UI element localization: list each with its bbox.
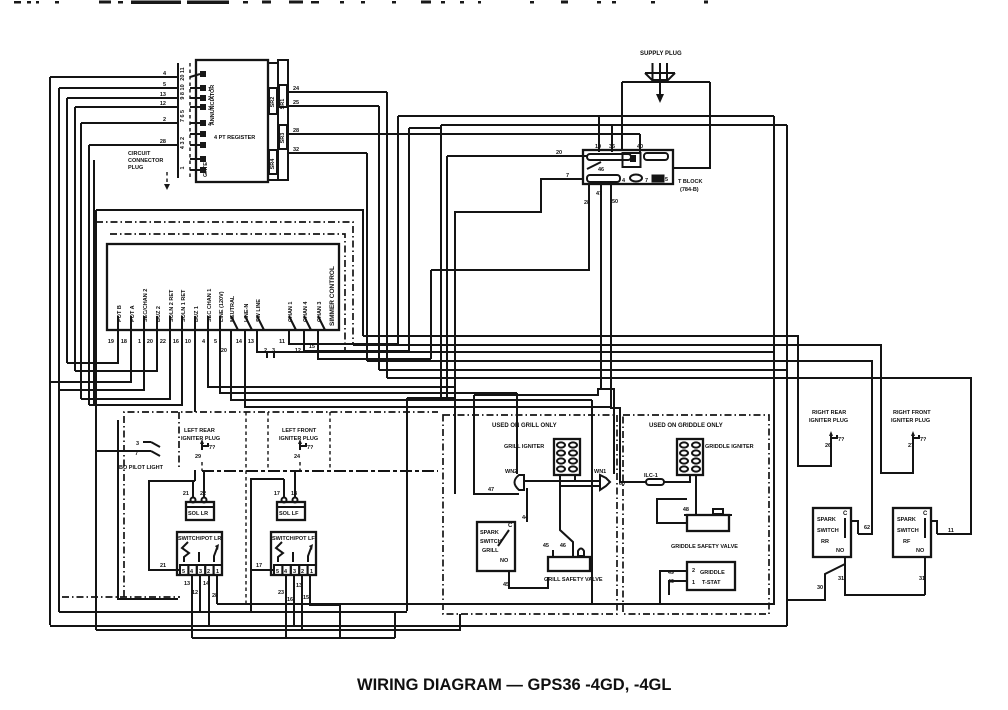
long run to RF plug bbox=[353, 345, 913, 473]
svg-text:ILC-1: ILC-1 bbox=[644, 473, 658, 479]
svg-text:15: 15 bbox=[309, 344, 315, 350]
svg-text:2: 2 bbox=[208, 96, 211, 102]
svg-text:WIRING DIAGRAM — GPS36 -4GD, -: WIRING DIAGRAM — GPS36 -4GD, -4GL bbox=[357, 676, 671, 694]
svg-text:1: 1 bbox=[208, 87, 211, 93]
svg-text:3: 3 bbox=[208, 106, 211, 112]
svg-text:28: 28 bbox=[212, 593, 218, 599]
simmer control module bbox=[107, 244, 339, 330]
right front igniter plug bbox=[891, 410, 931, 450]
svg-text:NO: NO bbox=[500, 558, 509, 564]
right riser B bbox=[773, 116, 775, 604]
simmer pin POT A / 18 bbox=[50, 305, 136, 382]
svg-text:3: 3 bbox=[199, 569, 202, 575]
svg-text:USED ON GRILL ONLY: USED ON GRILL ONLY bbox=[492, 423, 557, 429]
svg-text:C: C bbox=[843, 511, 848, 517]
bottom rail 612 bbox=[59, 611, 407, 613]
svg-text:CONNECTOR: CONNECTOR bbox=[128, 158, 163, 164]
right bottom rail bbox=[217, 603, 775, 605]
wire 31 RF bbox=[919, 557, 925, 595]
svg-text:27: 27 bbox=[908, 443, 914, 449]
wire 20 riser bbox=[446, 156, 448, 398]
spark switch RF bbox=[893, 508, 931, 557]
simmer pin CHAN 3 / 15 bbox=[309, 302, 431, 359]
svg-text:GRIDDLE: GRIDDLE bbox=[700, 570, 725, 576]
wire 50 below TB bbox=[611, 184, 633, 482]
BO pilot light bbox=[119, 437, 164, 471]
svg-text:5: 5 bbox=[163, 82, 166, 88]
svg-text:13: 13 bbox=[160, 92, 166, 98]
wire 25 riser center bbox=[378, 106, 380, 370]
svg-text:1: 1 bbox=[138, 339, 141, 345]
svg-text:28: 28 bbox=[160, 139, 166, 145]
svg-text:7?: 7? bbox=[920, 437, 927, 443]
fuse ILC-1 bbox=[619, 473, 690, 487]
wire 12 left riser bbox=[74, 107, 76, 371]
svg-text:C: C bbox=[923, 511, 928, 517]
wire 32 from U1 bbox=[288, 147, 367, 153]
svg-text:20: 20 bbox=[556, 150, 562, 156]
svg-text:4: 4 bbox=[202, 339, 206, 345]
svg-text:7?: 7? bbox=[307, 445, 314, 451]
griddle t-stat bbox=[668, 562, 735, 590]
svg-text:NO: NO bbox=[836, 548, 845, 554]
simmer pin BUZ 2 / 20 bbox=[75, 306, 162, 371]
svg-text:25: 25 bbox=[293, 100, 299, 106]
svg-text:13: 13 bbox=[248, 339, 254, 345]
svg-text:46: 46 bbox=[598, 167, 604, 173]
simmer pin SW LINE / 13 bbox=[248, 299, 345, 358]
svg-text:24: 24 bbox=[294, 454, 301, 460]
simmer pin CHAN 1 / 11 bbox=[279, 302, 398, 345]
svg-text:NO: NO bbox=[916, 548, 925, 554]
cropped header text row bbox=[14, 1, 708, 5]
svg-text:45: 45 bbox=[543, 543, 549, 549]
svg-text:WN1: WN1 bbox=[594, 469, 606, 475]
wire 47 below TB bbox=[596, 184, 602, 389]
bottom rail 638 bbox=[192, 612, 395, 638]
svg-text:SR1: SR1 bbox=[280, 99, 286, 110]
griddle valve loop bbox=[657, 499, 687, 523]
svg-text:4 3 2: 4 3 2 bbox=[180, 137, 186, 149]
wire 10 into TB top bbox=[595, 116, 601, 152]
svg-text:5: 5 bbox=[276, 569, 279, 575]
4 PT register U1 bbox=[196, 60, 288, 182]
svg-text:7 6 5: 7 6 5 bbox=[180, 110, 186, 122]
svg-text:2: 2 bbox=[264, 348, 267, 354]
svg-text:15: 15 bbox=[303, 595, 309, 601]
svg-text:62: 62 bbox=[864, 525, 870, 531]
wire 44 bbox=[522, 488, 529, 522]
svg-text:10: 10 bbox=[185, 339, 191, 345]
switch/pot LR bbox=[177, 532, 222, 575]
svg-text:4 PT REGISTER: 4 PT REGISTER bbox=[214, 135, 255, 141]
grill section boundary bbox=[443, 415, 617, 614]
svg-text:GRILL: GRILL bbox=[482, 548, 499, 554]
switch line riser bbox=[407, 398, 455, 611]
connector WN2 bbox=[505, 469, 524, 490]
chan4 riser center bbox=[408, 128, 410, 351]
solenoid SOL LR bbox=[183, 491, 214, 520]
wire 47 link to WN2 bbox=[474, 389, 614, 494]
svg-text:16: 16 bbox=[287, 597, 293, 603]
svg-text:48: 48 bbox=[683, 507, 689, 513]
svg-text:50: 50 bbox=[612, 199, 618, 205]
long run to spark RF wire 11 bbox=[387, 378, 971, 534]
connector WN1 bbox=[594, 469, 610, 490]
wire 24 riser center bbox=[386, 92, 388, 378]
SOL LR wiring bbox=[149, 471, 204, 570]
svg-text:SWITCH/POT LF: SWITCH/POT LF bbox=[272, 536, 315, 542]
SOL LF wiring bbox=[251, 471, 295, 612]
griddle safety valve bbox=[671, 507, 738, 550]
wire 40 into TB top bbox=[637, 134, 643, 152]
svg-text:T-STAT: T-STAT bbox=[702, 580, 721, 586]
svg-text:(784-B): (784-B) bbox=[680, 187, 699, 193]
U1 left pin squares bbox=[200, 71, 212, 173]
svg-text:SUPPLY PLUG: SUPPLY PLUG bbox=[640, 51, 682, 57]
svg-text:19: 19 bbox=[108, 339, 114, 345]
U1 pin ladder connector bbox=[178, 63, 200, 178]
svg-text:3: 3 bbox=[293, 569, 296, 575]
svg-text:3: 3 bbox=[272, 348, 275, 354]
wire 5 left riser bbox=[58, 88, 60, 612]
wire 28 to U1 bbox=[89, 139, 178, 145]
svg-text:17: 17 bbox=[274, 491, 280, 497]
svg-text:31: 31 bbox=[919, 576, 925, 582]
svg-text:5: 5 bbox=[214, 339, 217, 345]
pilot feed wire bbox=[96, 450, 143, 452]
svg-text:SR3: SR3 bbox=[280, 133, 286, 144]
svg-text:21: 21 bbox=[160, 563, 166, 569]
wire 13 to U1 bbox=[67, 92, 178, 98]
svg-text:IGNITER PLUG: IGNITER PLUG bbox=[891, 418, 930, 424]
svg-text:7?: 7? bbox=[838, 437, 845, 443]
svg-text:12: 12 bbox=[192, 590, 198, 596]
center griddle riser bbox=[591, 400, 593, 604]
svg-text:PLUG: PLUG bbox=[128, 165, 143, 171]
switch/pot LF bbox=[271, 532, 316, 575]
svg-text:SPARK: SPARK bbox=[817, 517, 836, 523]
simmer pin SOLN 1 RET / 16 bbox=[89, 289, 187, 405]
svg-text:22: 22 bbox=[160, 339, 166, 345]
svg-text:GRIDDLE SAFETY VALVE: GRIDDLE SAFETY VALVE bbox=[671, 544, 738, 550]
grill igniter wiring bbox=[524, 475, 600, 550]
svg-text:1: 1 bbox=[692, 580, 695, 586]
svg-text:21: 21 bbox=[183, 491, 189, 497]
chan1 riser center bbox=[397, 116, 399, 344]
simmer pin POT B / 19 bbox=[67, 305, 123, 363]
svg-text:29: 29 bbox=[195, 454, 201, 460]
svg-text:17: 17 bbox=[256, 563, 262, 569]
svg-text:7?: 7? bbox=[209, 445, 216, 451]
wire 2 left riser bbox=[80, 123, 82, 399]
svg-text:14: 14 bbox=[236, 339, 243, 345]
svg-text:SR2: SR2 bbox=[270, 97, 276, 108]
svg-text:USED ON GRIDDLE ONLY: USED ON GRIDDLE ONLY bbox=[649, 423, 723, 429]
spark switch RR C wire 62 bbox=[851, 521, 870, 534]
svg-text:10: 10 bbox=[595, 144, 601, 150]
long run to RR plug bbox=[363, 336, 831, 466]
svg-text:BO PILOT LIGHT: BO PILOT LIGHT bbox=[119, 465, 164, 471]
svg-text:26: 26 bbox=[825, 443, 831, 449]
circuit connector plug label bbox=[128, 151, 170, 190]
wire 28 below TB bbox=[431, 184, 590, 270]
svg-text:LEFT FRONT: LEFT FRONT bbox=[282, 428, 317, 434]
pilot feed riser bbox=[95, 210, 97, 630]
spark switch grill bbox=[477, 522, 515, 571]
wire 32 riser center bbox=[366, 153, 368, 361]
solenoid SOL LF bbox=[274, 491, 305, 520]
svg-text:44: 44 bbox=[522, 515, 529, 521]
svg-text:36: 36 bbox=[609, 144, 615, 150]
svg-text:SIMMER CONTROL: SIMMER CONTROL bbox=[329, 266, 336, 326]
griddle igniter drop bbox=[695, 475, 697, 515]
svg-text:11: 11 bbox=[279, 339, 285, 345]
wire 28 left riser bbox=[89, 145, 94, 405]
svg-text:SPARK: SPARK bbox=[897, 517, 916, 523]
wire 13 left riser bbox=[66, 98, 68, 363]
wire 36 into TB top bbox=[609, 125, 615, 152]
wire 7 to TB bbox=[455, 173, 583, 494]
long run mid right bbox=[345, 351, 774, 353]
long run to spark RR bbox=[367, 361, 872, 534]
svg-text:40: 40 bbox=[637, 144, 643, 150]
simmer pin SOLN 2 RET / 22 bbox=[81, 289, 175, 399]
left front igniter plug bbox=[279, 428, 318, 471]
svg-text:2: 2 bbox=[301, 569, 304, 575]
left rear igniter plug bbox=[181, 428, 220, 471]
griddle igniter bbox=[677, 439, 754, 475]
svg-text:RIGHT FRONT: RIGHT FRONT bbox=[893, 410, 931, 416]
wire 4 left riser bbox=[49, 77, 51, 625]
simmer pin SEC CHAN 1 / 4 bbox=[202, 289, 456, 387]
svg-text:7: 7 bbox=[566, 173, 569, 179]
simmer pin CHAN 4 / 12 bbox=[295, 301, 409, 354]
long run to v787 bbox=[379, 369, 787, 371]
svg-text:47: 47 bbox=[596, 191, 602, 197]
svg-text:RIGHT REAR: RIGHT REAR bbox=[812, 410, 846, 416]
left section boundary bbox=[62, 412, 438, 606]
svg-text:SOL LF: SOL LF bbox=[279, 511, 299, 517]
svg-text:12: 12 bbox=[160, 101, 166, 107]
svg-text:SPARK: SPARK bbox=[480, 530, 499, 536]
right rear igniter plug bbox=[809, 410, 848, 450]
simmer pin LINE-N / 14 bbox=[236, 304, 611, 407]
svg-text:CIRCUIT: CIRCUIT bbox=[128, 151, 151, 157]
wire 4 to U1 bbox=[50, 71, 178, 77]
simmer pin NEUTRAL / 20 bbox=[221, 295, 592, 400]
svg-text:13: 13 bbox=[184, 581, 190, 587]
svg-text:12: 12 bbox=[295, 348, 301, 354]
svg-text:20: 20 bbox=[147, 339, 153, 345]
svg-text:WN2: WN2 bbox=[505, 469, 517, 475]
svg-text:28: 28 bbox=[584, 200, 590, 206]
svg-text:18: 18 bbox=[121, 339, 127, 345]
svg-text:RR: RR bbox=[821, 539, 829, 545]
svg-text:14: 14 bbox=[203, 581, 210, 587]
svg-text:9 8 10: 9 8 10 bbox=[180, 84, 186, 99]
griddle section boundary bbox=[623, 415, 769, 614]
spark switch RR bbox=[813, 508, 851, 557]
svg-text:1: 1 bbox=[310, 569, 313, 575]
svg-text:GRILL IGNITER: GRILL IGNITER bbox=[504, 444, 544, 450]
grill igniter bbox=[504, 439, 580, 475]
svg-text:28: 28 bbox=[293, 128, 299, 134]
wire 30 bbox=[787, 564, 845, 600]
wire 29 run bbox=[202, 470, 438, 472]
svg-text:20: 20 bbox=[221, 348, 227, 354]
wire 2 to U1 bbox=[81, 117, 178, 123]
svg-text:7: 7 bbox=[645, 178, 648, 184]
wire 20 to TB bbox=[447, 150, 587, 156]
simmer pin SEC/CHAN 2 / 1 bbox=[59, 289, 149, 390]
simmer wrap wire A bbox=[96, 210, 363, 336]
svg-text:60: 60 bbox=[619, 481, 625, 487]
wire 12 to U1 bbox=[75, 101, 178, 107]
wire 5 to U1 bbox=[59, 82, 178, 88]
wire 24 from U1 bbox=[288, 86, 387, 92]
supply plug bbox=[640, 51, 682, 103]
svg-text:SWITCH: SWITCH bbox=[817, 528, 839, 534]
svg-text:IGNITER PLUG: IGNITER PLUG bbox=[181, 436, 220, 442]
svg-text:11: 11 bbox=[948, 528, 954, 534]
svg-text:2: 2 bbox=[163, 117, 166, 123]
svg-text:SWITCH/POT LR: SWITCH/POT LR bbox=[178, 536, 221, 542]
register top link wire bbox=[398, 115, 774, 117]
svg-text:RF: RF bbox=[903, 539, 911, 545]
svg-text:47: 47 bbox=[488, 487, 494, 493]
svg-text:2: 2 bbox=[692, 568, 695, 574]
svg-text:23: 23 bbox=[278, 590, 284, 596]
svg-text:32: 32 bbox=[293, 147, 299, 153]
svg-text:GRIDDLE IGNITER: GRIDDLE IGNITER bbox=[705, 444, 754, 450]
wire 31 RR bbox=[838, 557, 925, 595]
simmer pin BUZ 1 / 10 bbox=[185, 306, 200, 481]
svg-text:5: 5 bbox=[665, 177, 668, 183]
svg-text:24: 24 bbox=[293, 86, 300, 92]
wire 28 from U1 to spark switches bbox=[288, 128, 640, 134]
right riser A bbox=[786, 125, 788, 626]
griddle t-stat loop bbox=[660, 571, 676, 604]
simmer pin LINE (120V) / 5 bbox=[214, 291, 517, 474]
svg-text:46: 46 bbox=[560, 543, 566, 549]
register top link wire 2 bbox=[409, 125, 787, 398]
svg-text:5: 5 bbox=[182, 569, 185, 575]
svg-text:16: 16 bbox=[173, 339, 179, 345]
svg-text:LEFT REAR: LEFT REAR bbox=[184, 428, 215, 434]
svg-text:45: 45 bbox=[503, 582, 509, 588]
wire 45 from spark grill bbox=[503, 571, 548, 588]
svg-text:SOL LR: SOL LR bbox=[188, 511, 208, 517]
svg-text:IGNITER PLUG: IGNITER PLUG bbox=[809, 418, 848, 424]
svg-text:30: 30 bbox=[817, 585, 823, 591]
svg-text:20 11: 20 11 bbox=[180, 67, 186, 80]
griddle section title bbox=[649, 423, 723, 429]
spark switch RF C wire bbox=[931, 521, 937, 534]
bottom rail 625 bbox=[50, 625, 787, 627]
left inner box corner bbox=[118, 420, 178, 599]
supply wiring loop bbox=[622, 82, 710, 168]
wire 25 from U1 bbox=[288, 100, 379, 106]
svg-text:3: 3 bbox=[136, 441, 139, 447]
svg-text:C: C bbox=[508, 523, 513, 529]
bottom rail 630 bbox=[96, 614, 460, 630]
svg-text:SWITCH: SWITCH bbox=[897, 528, 919, 534]
svg-text:T BLOCK: T BLOCK bbox=[678, 179, 702, 185]
chan3 riser center bbox=[430, 270, 432, 359]
grill section title bbox=[492, 423, 557, 429]
T block TB (784-B) bbox=[583, 150, 702, 193]
caption bbox=[357, 676, 671, 694]
svg-text:31: 31 bbox=[838, 576, 844, 582]
switch/pot LR terminal wires bbox=[184, 575, 218, 638]
svg-text:1: 1 bbox=[216, 569, 219, 575]
svg-text:1: 1 bbox=[180, 166, 186, 169]
simmer wrap wire B bbox=[96, 222, 353, 345]
svg-text:SR4: SR4 bbox=[270, 158, 276, 170]
svg-text:GRILL SAFETY VALVE: GRILL SAFETY VALVE bbox=[544, 577, 603, 583]
svg-text:IGNITER PLUG: IGNITER PLUG bbox=[279, 436, 318, 442]
simmer wrap wire C bbox=[110, 234, 345, 352]
grill safety valve bbox=[543, 543, 603, 583]
svg-text:2: 2 bbox=[207, 569, 210, 575]
switch/pot LF terminal wires bbox=[278, 575, 340, 638]
